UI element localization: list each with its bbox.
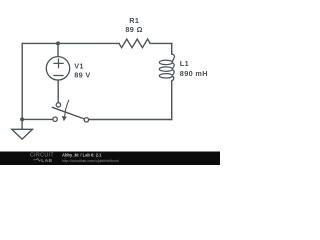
switch pivot terminal — [56, 103, 60, 107]
svg-text:Abby_M: / Lab 6: 2.1: Abby_M: / Lab 6: 2.1 — [62, 152, 102, 157]
wire top rail right — [150, 42, 172, 44]
V1 plus sign — [54, 59, 63, 68]
switch SW lever — [52, 107, 84, 119]
svg-text:L1: L1 — [180, 59, 189, 68]
svg-text:LAB: LAB — [41, 158, 52, 164]
resistor R1 — [119, 39, 150, 48]
wire inductor top lead — [171, 43, 173, 54]
junction bottom left — [20, 117, 24, 121]
junction top — [56, 41, 60, 45]
svg-text:V1: V1 — [74, 62, 84, 71]
svg-text:CIRCUIT: CIRCUIT — [30, 152, 54, 158]
wire bottom rail left — [22, 118, 53, 120]
wire top rail left — [22, 42, 119, 44]
ground symbol — [12, 129, 33, 139]
wire V1 top lead — [57, 43, 59, 56]
V1 minus sign — [54, 75, 63, 77]
switch actuator arrow — [65, 100, 69, 116]
svg-text:http://circuitlab.com/c/jahfrb: http://circuitlab.com/c/jahfrbbfhxvd — [62, 159, 119, 163]
wire inductor bottom lead — [171, 81, 173, 120]
svg-text:890 mH: 890 mH — [180, 69, 208, 78]
svg-text:89 Ω: 89 Ω — [125, 25, 142, 34]
wire left rail — [21, 43, 23, 119]
switch right terminal — [84, 118, 88, 122]
wire bottom rail right — [89, 119, 172, 121]
inductor L1 — [159, 54, 174, 81]
wire V1 bottom lead — [57, 81, 59, 103]
switch left terminal — [53, 117, 57, 121]
ground stub — [21, 119, 23, 129]
watermark logo squiggle — [33, 159, 40, 162]
voltage source V1 — [46, 57, 69, 80]
svg-text:R1: R1 — [129, 16, 139, 25]
watermark footer bar — [0, 152, 220, 166]
watermark logo CIRCUIT — [30, 152, 54, 164]
switch arrow head — [62, 116, 67, 121]
svg-text:89 V: 89 V — [74, 71, 90, 80]
